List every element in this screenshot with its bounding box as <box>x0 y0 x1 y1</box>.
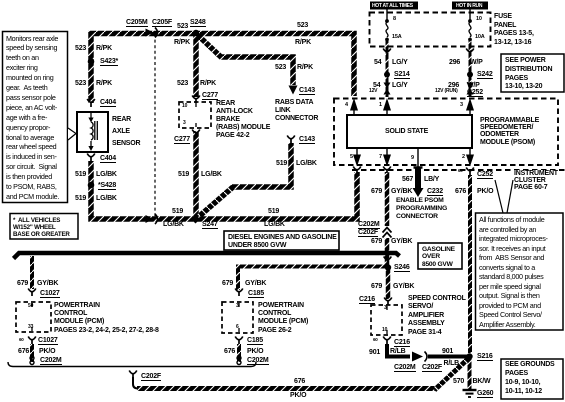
connector C216 top <box>384 298 392 306</box>
pin 3 RABS <box>183 121 186 127</box>
box see grounds <box>501 359 563 399</box>
PSOM pin 9 <box>411 156 414 162</box>
label 570 BK/W <box>453 378 464 385</box>
connector above S246 <box>384 257 392 265</box>
box all vehicles <box>10 214 78 240</box>
label connector C202F bottom <box>141 373 161 381</box>
wire 519 LG/BK C143 down then to S247 <box>231 143 291 187</box>
label hot at all times <box>372 4 413 9</box>
dashed box speed control servo <box>371 305 402 335</box>
wire 570 BK/W S216 to ground G260 <box>468 358 472 389</box>
wire 523 R/PK main run: sensor corner to S248 to PSOM pin 4 <box>91 34 354 104</box>
label 12V pin1 <box>369 89 377 94</box>
wire 679 GY/BK S246 down to speed control C216 <box>386 269 391 299</box>
PCM2 pin 3 <box>236 304 239 310</box>
PSOM pin 4 <box>345 103 348 109</box>
label ground G260 <box>477 390 493 398</box>
wire 679 GY/BK PCM1 branch <box>30 256 34 289</box>
splice S247 <box>191 215 200 224</box>
label PCM2 <box>258 302 308 335</box>
label 901 left <box>369 349 380 356</box>
PCM2 pin 6 <box>236 325 239 331</box>
wire 54 LG/Y fuse 8 to PSOM pin 1 <box>386 41 389 97</box>
label connector C1027 bottom <box>38 337 58 345</box>
label 679 pin7 <box>371 188 382 195</box>
dashed box PCM 2 <box>222 302 253 333</box>
black box hot at all times <box>370 2 418 10</box>
connector C216 bottom <box>383 337 391 345</box>
label fuse panel <box>494 13 534 47</box>
box see power distribution <box>501 54 564 92</box>
callout lines all functions box <box>495 180 513 213</box>
wire 676 PK/O PCM2 below <box>237 344 241 362</box>
label fuse 10 rating <box>475 35 485 41</box>
label speed control servo <box>408 295 466 337</box>
label 523 C143 branch <box>275 64 286 71</box>
note text monitors <box>6 34 59 202</box>
dashed box PCM 1 <box>16 302 51 332</box>
arrow into PSOM pin 3 <box>466 98 474 111</box>
wire fuse 8 feed <box>386 9 388 20</box>
connector C404 bottom <box>87 154 95 162</box>
wire 519 LG/BK RABS module to S247 <box>193 131 199 218</box>
label splice S246 <box>394 264 410 272</box>
pin stubs PSOM <box>354 110 470 167</box>
PCM1 pin 60 <box>19 338 24 343</box>
label 519 RABS return <box>178 171 189 178</box>
connector C1027 bottom <box>28 337 36 345</box>
connector C277 bottom <box>192 130 200 138</box>
label connector C277 top <box>202 92 218 100</box>
label connectors C202M C202F inline 901 <box>394 364 416 372</box>
label hot in run <box>456 4 482 9</box>
connector bowtie on 296 W/P at C252 <box>467 83 474 95</box>
label circuit 54 upper <box>374 59 381 66</box>
label 676 PCM1 <box>18 348 29 355</box>
label connector C143 bottom <box>299 136 315 144</box>
label 523 top right <box>297 22 308 29</box>
wire 523 R/PK S248 down to RABS module C277 <box>193 36 199 97</box>
arrow 523 inline connector C205 <box>146 29 154 37</box>
label connector C232 <box>427 188 443 196</box>
wire 679 GY/BK PCM2 branch to S246 <box>238 267 386 291</box>
connector C185 bottom <box>235 337 243 345</box>
connector C1027 top <box>28 289 36 297</box>
wire 901 R/LB speed control to S216 <box>387 344 467 357</box>
note text all functions <box>479 215 548 329</box>
label 523 RABS feed <box>177 80 188 87</box>
label 12V RUN pin3 <box>435 89 458 94</box>
label RABS module <box>216 100 270 140</box>
wire 676 PK/O PCM1 below <box>30 344 34 362</box>
wire 676 PK/O bottom run to S216 <box>137 386 437 391</box>
connector bowtie on 54 LG/Y at C252 <box>384 83 391 95</box>
dashed line instrument cluster <box>352 169 565 171</box>
box diesel engines <box>224 231 339 250</box>
wire 676 thin link line between C202M ends <box>8 362 256 367</box>
ground symbol G260 <box>463 390 477 397</box>
label PSOM <box>480 117 539 147</box>
label RABS data link connector <box>275 99 318 123</box>
PSOM pin 1 <box>379 103 382 109</box>
pin stubs RABS PCM1 PCM2 speed control <box>32 103 387 334</box>
PCM1 pin 33 <box>28 325 33 331</box>
label circuit 296 upper <box>449 59 460 66</box>
label 676 pin2 <box>455 188 466 195</box>
label 679 below S246 <box>371 283 382 290</box>
label solid state <box>385 128 428 135</box>
connector fuse panel out left <box>383 49 391 57</box>
pin 60 cluster <box>458 169 463 174</box>
PSOM pin 7 <box>379 155 382 161</box>
label connector C202M PCM1 <box>40 357 62 365</box>
note box monitors <box>3 32 68 203</box>
speed control pin 3 <box>384 306 387 312</box>
arrow 519 inline connector C205 <box>146 215 154 223</box>
label circuit 54 lower <box>373 82 380 89</box>
label rear axle sensor <box>112 114 140 150</box>
wire 676 C202F drop <box>133 377 138 389</box>
label splice S248 <box>190 19 206 27</box>
label connector C216 bottom <box>394 339 410 347</box>
arrow out PSOM pin 2 <box>466 155 474 167</box>
label 679 PCM2 <box>222 280 233 287</box>
label circuit 296 lower <box>448 82 459 89</box>
connector C202M end PCM1 <box>30 356 34 365</box>
label fuse 10 <box>476 17 482 23</box>
label connector C205F <box>152 19 172 27</box>
label fuse 8 <box>393 17 396 23</box>
splice S246 <box>385 264 391 270</box>
box solid state <box>347 115 472 148</box>
connector below PSOM pin 7 <box>383 167 391 174</box>
label 676 bottom run <box>294 378 305 385</box>
wire 519 LG/BK sensor return to S247 to PSOM pin 5 <box>91 161 357 219</box>
label connector C205M <box>126 19 148 27</box>
arc of C205 inline connector top <box>155 28 158 38</box>
label 523 before S248 <box>177 23 188 30</box>
label connector C202F on 679 <box>358 229 378 237</box>
label splice S214 <box>394 71 410 79</box>
splice S242 <box>467 72 473 78</box>
label connector C185 bottom <box>247 337 263 345</box>
label 679 above S246 <box>371 238 382 245</box>
label splice S428 <box>98 182 116 190</box>
dashed box RABS module <box>179 102 211 128</box>
splice S423 <box>88 58 95 65</box>
wire 679 GY/BK PSOM pin 7 down <box>385 172 390 265</box>
pin 10 RABS <box>182 104 187 110</box>
PSOM pin 3 <box>460 103 463 109</box>
label connector C143 top <box>299 87 315 95</box>
splice S214 <box>384 72 390 78</box>
pin W C216 <box>373 338 378 343</box>
C205 boundary dashed line <box>154 34 156 219</box>
wire 296 W/P fuse 10 to PSOM pin 3 <box>469 41 472 97</box>
connector fuse panel out right <box>466 49 474 57</box>
label 519 left of S247 <box>172 208 183 215</box>
wire 679 bus line <box>14 253 400 259</box>
arrow 901 inline connector <box>412 352 423 362</box>
arrow into C143 <box>289 86 298 95</box>
label R/PK top right <box>295 39 311 46</box>
wire 523 R/PK branch S248 to RABS data link connector C143 <box>196 34 293 86</box>
dashed box fuse panel <box>370 13 491 47</box>
label connector C252 bottom <box>477 171 493 179</box>
label splice S242 <box>477 71 493 79</box>
label connector C1027 top <box>40 290 60 298</box>
splice S428 <box>88 182 95 189</box>
dashed box PSOM <box>334 99 558 166</box>
label instrument cluster <box>514 170 558 192</box>
connector C277 top <box>192 96 200 104</box>
label connector C252 top <box>467 89 483 97</box>
connector C404 top <box>87 99 95 107</box>
label connector C277 bottom <box>174 136 190 144</box>
label fuse 8 rating <box>392 35 402 41</box>
label 679 PCM1 <box>17 280 28 287</box>
connector C202F <box>129 371 137 379</box>
connector C143 bottom <box>287 136 295 144</box>
label 523 sensor wire lower <box>75 80 86 87</box>
box rear axle sensor <box>77 112 108 152</box>
PSOM pin 2 <box>462 155 465 161</box>
rear axle sensor internals <box>91 113 97 146</box>
box text see grounds <box>505 361 555 397</box>
label 519 right of S247 <box>268 208 279 215</box>
arrow at C232 pin 9 <box>413 188 424 197</box>
arc of 901 inline connector <box>425 352 428 362</box>
PSOM pin 5 <box>350 155 353 161</box>
label connector C404 top <box>100 99 116 107</box>
label R/PK below top line <box>174 39 190 46</box>
PCM1 pin 50 <box>28 304 33 310</box>
connector C202M end PCM2 <box>237 356 241 365</box>
note box all functions <box>476 213 564 330</box>
fuse 8 element <box>386 22 388 37</box>
speed control pin 10 <box>382 328 387 334</box>
wire 567 LB/Y PSOM pin 9 to C232 <box>415 167 421 189</box>
label enable psom <box>396 197 447 222</box>
label 519 below sensor <box>75 171 86 178</box>
box text diesel engines <box>228 234 337 250</box>
label connector C202M PCM2 <box>247 357 269 365</box>
connector below PSOM pin 5 <box>353 167 361 174</box>
splice S216 <box>466 353 472 359</box>
label 901 right <box>442 348 453 355</box>
arrow out PSOM pin 5 <box>353 155 361 167</box>
label splice S216 <box>477 353 493 361</box>
arrow into PSOM pin 1 <box>383 98 391 111</box>
wire fuse 10 feed <box>469 9 471 20</box>
label 523 sensor wire upper <box>75 45 86 52</box>
splice S248 <box>193 30 200 37</box>
callout notch monitors box <box>68 128 76 140</box>
box text gasoline over <box>422 246 455 269</box>
fuse terminal dots <box>385 19 389 23</box>
label connector C404 bottom <box>100 155 116 163</box>
arc of C205 inline connector on 519 <box>155 214 158 224</box>
arrow out PSOM pin 7 <box>383 155 391 167</box>
label 567 LB/Y <box>402 176 413 183</box>
label connector C185 top <box>248 290 264 298</box>
label splice S423 <box>100 58 118 66</box>
label connector C216 top <box>359 296 375 304</box>
connector C185 top <box>235 289 243 297</box>
label 519 C143 return <box>276 160 287 167</box>
connector C202M C202F chevrons on 679 <box>383 228 392 238</box>
arrow into PSOM pin 4 <box>350 98 358 111</box>
label splice S247 <box>202 221 218 229</box>
label PCM1 <box>54 302 159 335</box>
wire 676 PK/O PSOM pin 2 down to S216 <box>468 175 472 353</box>
label 676 PCM2 <box>224 348 235 355</box>
black box hot in run <box>452 2 488 10</box>
connector below PSOM pin 2 C252 <box>466 168 474 176</box>
label connector C202M on 679 <box>358 221 380 229</box>
box text see power distribution <box>505 57 552 92</box>
label 519 lower <box>75 195 86 202</box>
box gasoline over 8500 <box>418 243 462 269</box>
box text all vehicles <box>13 217 70 239</box>
fuse 10 element <box>469 22 471 37</box>
